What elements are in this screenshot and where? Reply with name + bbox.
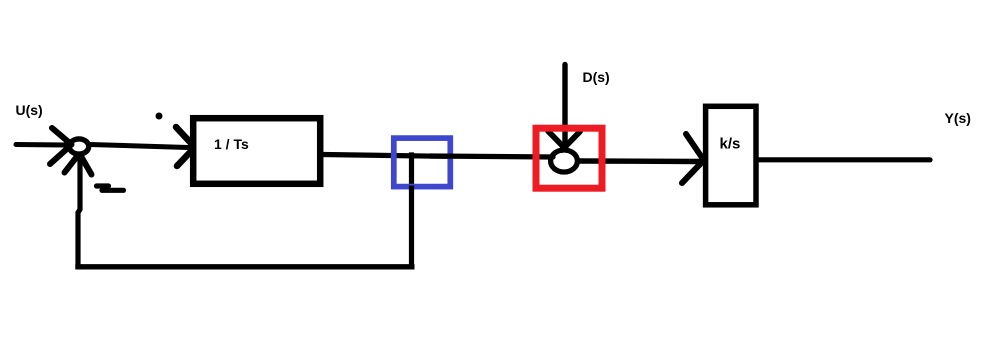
summing junction S1: [69, 139, 88, 154]
summing junction S2: [551, 150, 578, 172]
svg-text:D(s): D(s): [583, 69, 610, 85]
svg-text:Y(s): Y(s): [945, 110, 971, 126]
wire feedback left vertical up to S1: [78, 158, 80, 265]
svg-text:k/s: k/s: [720, 136, 741, 153]
node D(s) label: [583, 69, 610, 85]
dot above wire: [156, 113, 163, 120]
minus sign at S1: [97, 186, 124, 190]
arrowhead D(s) into S2: [548, 131, 580, 150]
node U(s) label: [16, 102, 43, 118]
node Y(s) label: [945, 110, 971, 126]
arrowhead into block k/s: [682, 134, 704, 183]
block G2 "k/s": [706, 106, 756, 205]
wire pickoff vertical drop: [409, 155, 414, 267]
svg-text:1 / Ts: 1 / Ts: [214, 136, 249, 152]
wire feedback bottom horizontal: [78, 264, 412, 269]
wire block 1/Ts to pickoff node: [323, 155, 447, 157]
wire pickoff node to summing junction S2: [430, 156, 553, 157]
wire input U(s): [16, 142, 66, 148]
blue highlight box around pickoff node: [394, 138, 451, 187]
svg-text:U(s): U(s): [16, 102, 43, 118]
arrowhead into summing junction S1: [50, 128, 72, 164]
wire S1 to block 1/Ts: [90, 145, 188, 148]
wire output to Y(s): [757, 157, 930, 162]
arrowhead feedback into S1 (from below): [65, 155, 92, 175]
wire pickoff crossing blue box bottom edge: [409, 186, 414, 191]
red highlight box around S2: [536, 128, 602, 188]
wire S2 to block k/s: [580, 158, 700, 164]
arrowhead into block 1/Ts: [176, 127, 196, 166]
block G1 "1 / Ts": [193, 118, 320, 184]
wire D(s) vertical into S2: [562, 65, 567, 149]
